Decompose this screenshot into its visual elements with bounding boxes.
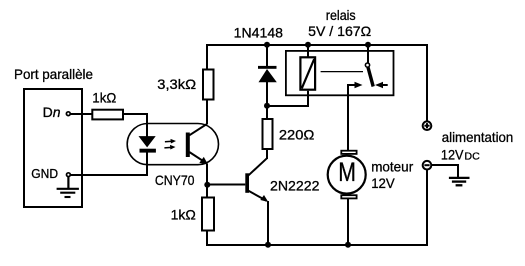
resistor 3,3kΩ body — [203, 70, 214, 100]
motor M — [328, 151, 366, 199]
terminal plus (alimentation +) — [423, 121, 432, 130]
wire base node to transistor — [207, 184, 245, 186]
resistor 220Ω body — [263, 119, 273, 149]
relay box — [286, 51, 394, 95]
svg-text:alimentation: alimentation — [442, 129, 514, 145]
phototransistor (CNY70) — [186, 124, 208, 165]
node bottom rail / motor — [345, 242, 351, 248]
svg-text:relais: relais — [326, 7, 356, 23]
wire phototransistor collector to R 3,3k — [206, 100, 208, 124]
wire bottom rail — [206, 244, 428, 246]
wire R1k to bottom rail — [206, 230, 208, 245]
wire top rail to switch pivot — [367, 44, 369, 63]
wire top rail to plus terminal — [426, 44, 428, 122]
relay coil — [300, 57, 315, 89]
svg-text:12V: 12V — [371, 175, 395, 191]
wire switch to motor — [347, 85, 349, 151]
svg-text:moteur: moteur — [371, 159, 413, 175]
node top rail / diode — [264, 42, 270, 48]
wire top rail to coil — [307, 44, 309, 57]
wire node to R1k bottom — [206, 184, 208, 198]
svg-text:Port parallèle: Port parallèle — [14, 66, 93, 82]
svg-text:220Ω: 220Ω — [279, 127, 315, 143]
wire Dn pin to R 1k — [70, 113, 92, 115]
node top rail / coil — [305, 42, 311, 48]
svg-text:Dn: Dn — [43, 104, 61, 120]
transistor 2N2222 — [245, 158, 268, 202]
wire transistor emitter to bottom rail — [267, 201, 269, 245]
wire phototransistor emitter to node — [206, 164, 208, 186]
node bottom rail / transistor emitter — [265, 242, 271, 248]
diode 1N4148 — [258, 44, 277, 106]
svg-text:12V: 12V — [441, 147, 464, 163]
svg-text:3,3kΩ: 3,3kΩ — [157, 76, 196, 92]
optocoupler CNY70 outline — [127, 124, 218, 165]
resistor 1kΩ (bottom) body — [202, 198, 214, 231]
connector box Port parallèle — [24, 89, 82, 207]
wire minus terminal to ground — [431, 165, 458, 177]
LED (CNY70 emitter diode) — [139, 136, 156, 152]
wire minus terminal to bottom rail — [426, 169, 428, 245]
wire R220 to transistor collector — [266, 149, 268, 159]
wire motor to bottom rail — [347, 199, 349, 246]
svg-text:2N2222: 2N2222 — [270, 178, 320, 194]
pin Dn terminal — [66, 112, 70, 116]
resistor 1kΩ (top) body — [92, 110, 123, 120]
wire LED cathode to GND — [70, 152, 147, 175]
terminal minus (alimentation -) — [423, 161, 432, 170]
pin GND terminal — [67, 173, 71, 177]
svg-text:1N4148: 1N4148 — [234, 24, 284, 40]
wire R 3,3k to top rail — [206, 44, 208, 70]
relay link line — [321, 71, 363, 73]
svg-text:1kΩ: 1kΩ — [171, 207, 196, 223]
relay switch — [347, 63, 388, 88]
wire node to relay coil bottom — [267, 91, 308, 106]
svg-text:DC: DC — [464, 151, 480, 163]
svg-text:CNY70: CNY70 — [155, 172, 195, 188]
svg-text:GND: GND — [31, 166, 58, 181]
svg-text:1kΩ: 1kΩ — [92, 90, 116, 106]
node diode anode / coil / R220 — [264, 103, 270, 109]
node emitter / base / R1k — [204, 182, 210, 188]
wire top rail — [206, 44, 428, 46]
wire R 1k to LED anode — [124, 114, 147, 137]
svg-text:M: M — [338, 157, 356, 187]
ground (alimentation) — [449, 178, 470, 185]
svg-text:5V / 167Ω: 5V / 167Ω — [308, 23, 371, 39]
ground (port GND) — [57, 177, 79, 198]
node top rail / switch — [365, 42, 371, 48]
wire node to R220 — [266, 106, 268, 119]
light arrows — [164, 139, 176, 150]
